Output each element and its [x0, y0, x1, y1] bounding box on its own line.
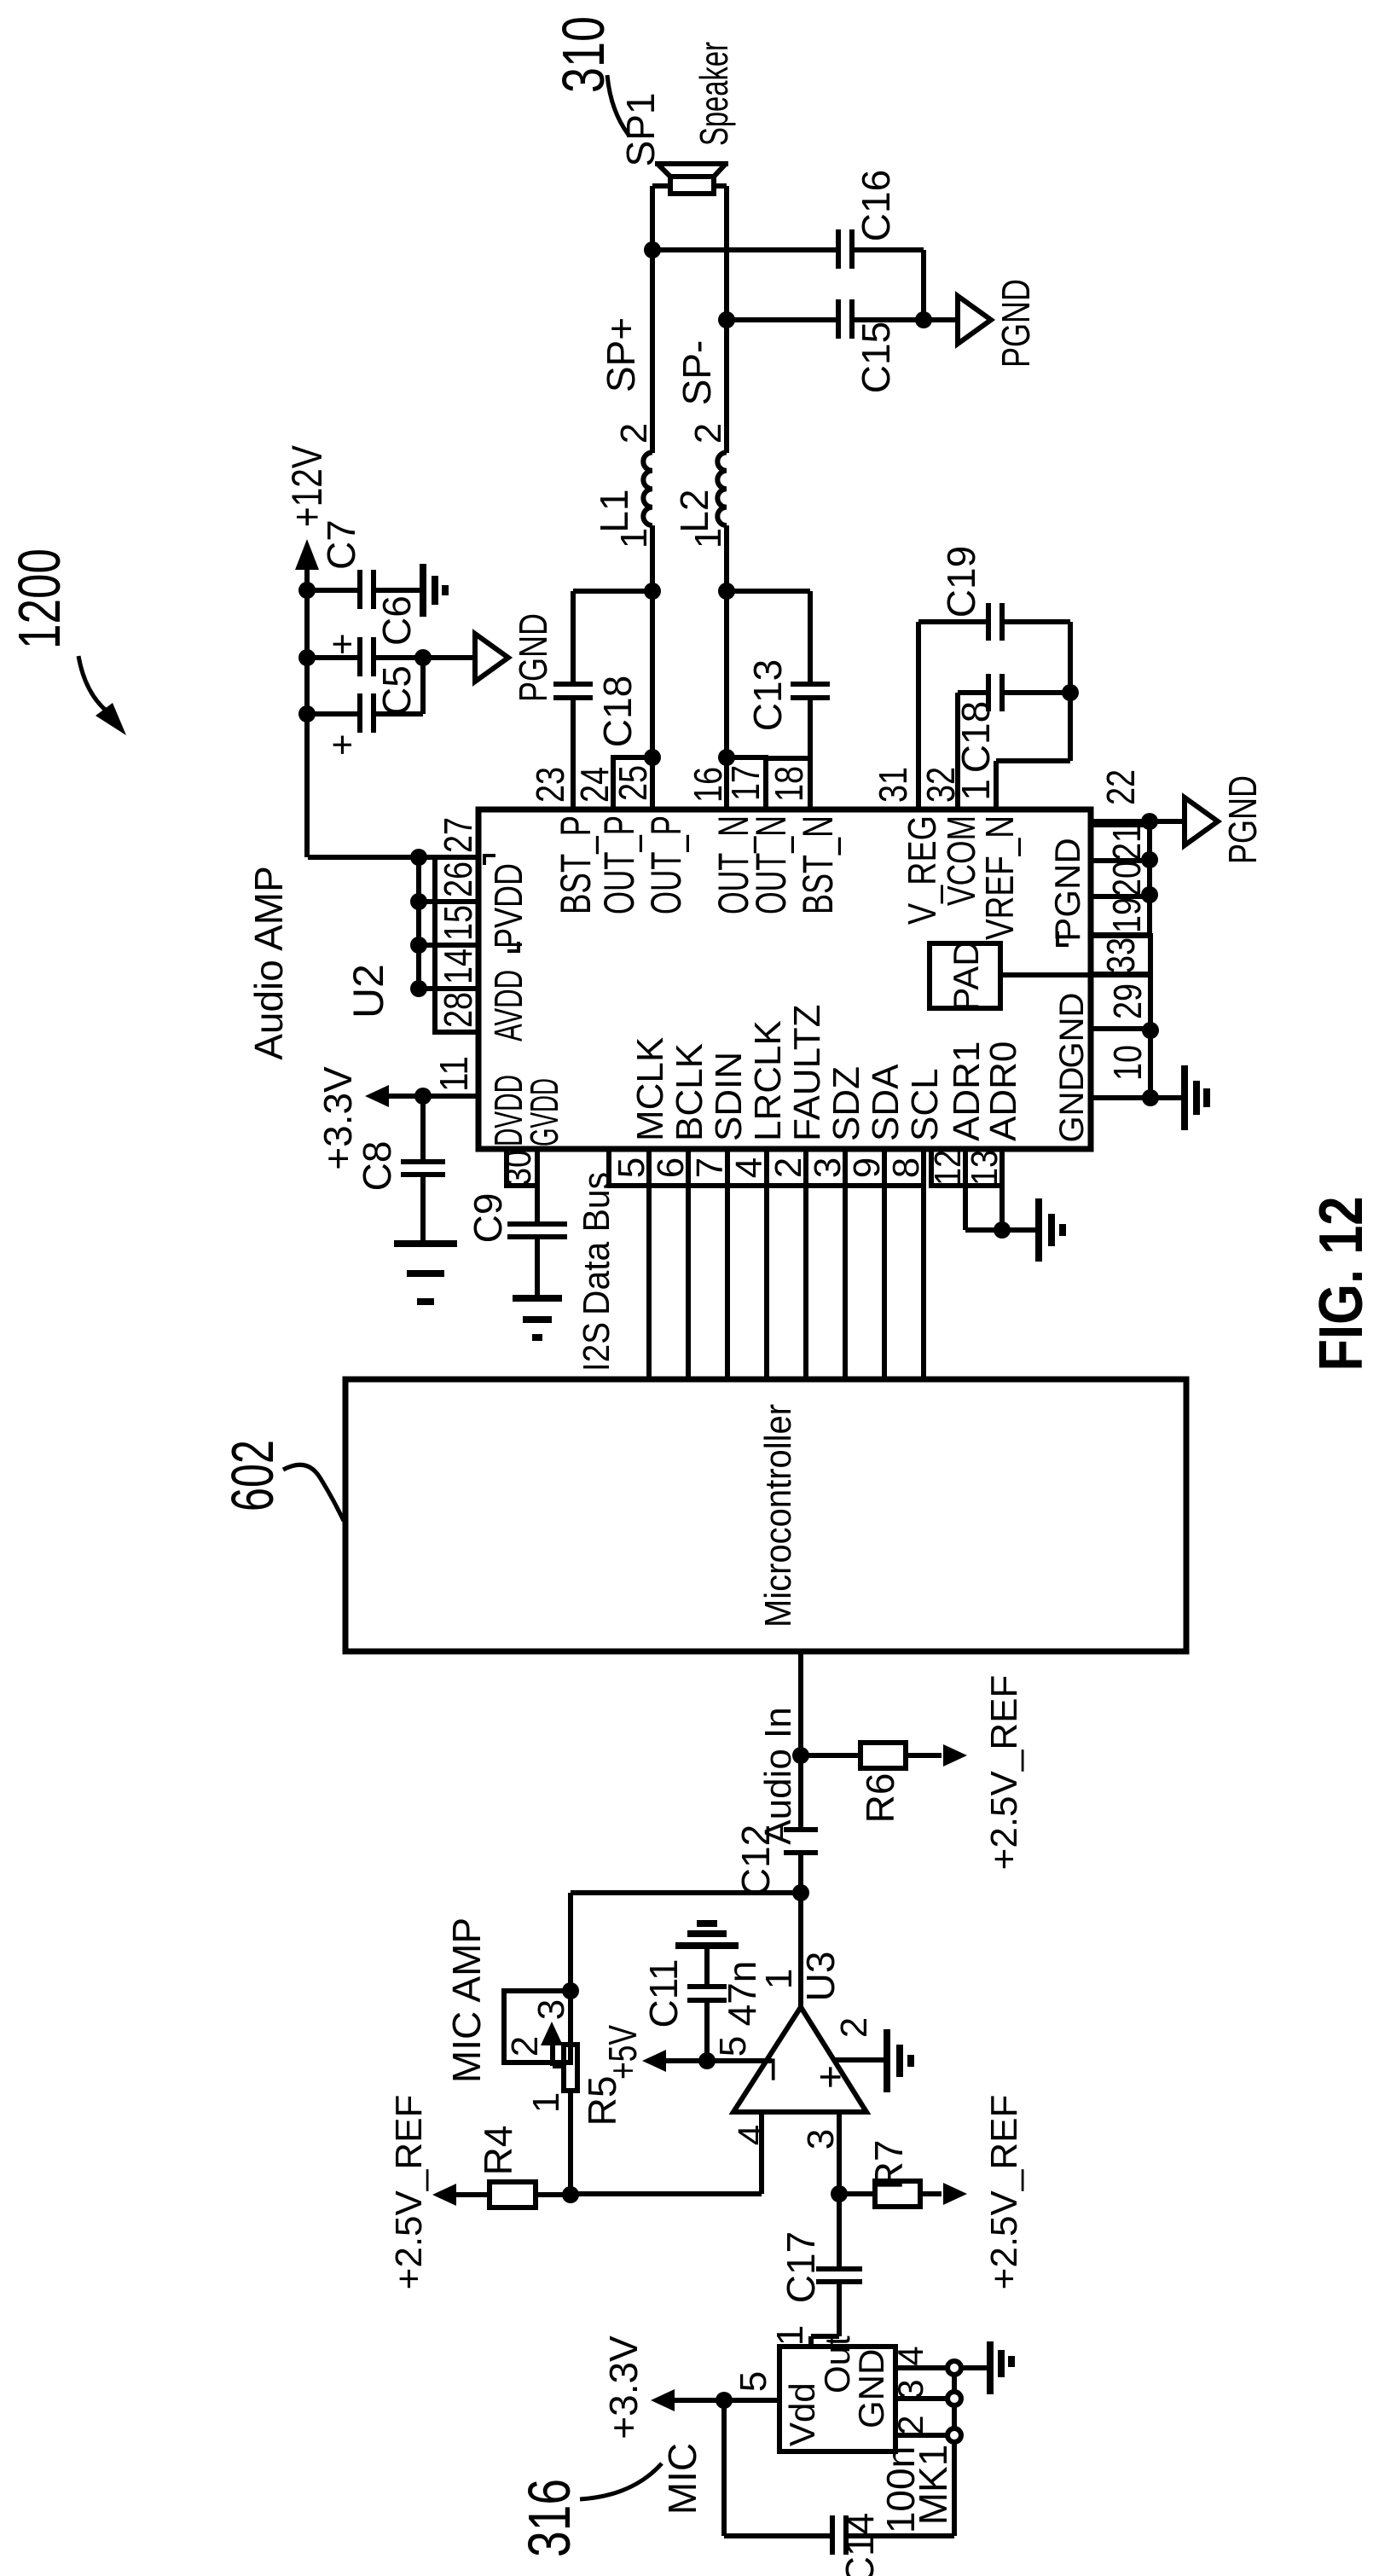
- svg-text:SCL: SCL: [904, 1068, 946, 1141]
- wire: GND pins to ground: [1142, 1022, 1183, 1106]
- wire: I2S bus MCLK: [646, 1186, 652, 1379]
- pin 14 stub (PVDD): [435, 945, 480, 989]
- PGND terminal (U2 bottom): [1150, 775, 1265, 864]
- svg-text:C17: C17: [779, 2231, 823, 2303]
- pin 8 stub (SCL): [884, 1149, 927, 1186]
- inductor L1: [592, 423, 655, 548]
- svg-text:18: 18: [767, 766, 811, 802]
- label PVDD: [484, 856, 530, 951]
- svg-text:C13: C13: [745, 659, 790, 731]
- capacitor C15: [718, 299, 932, 393]
- svg-text:PGND: PGND: [994, 279, 1038, 368]
- figure number 316: [516, 2463, 662, 2557]
- svg-text:+3.3V: +3.3V: [316, 1066, 360, 1170]
- wire: mic pin 4 to ground: [962, 2365, 988, 2370]
- capacitor C7: [307, 519, 423, 609]
- svg-text:U3: U3: [798, 1952, 843, 2002]
- capacitor C11 47n: [641, 1947, 764, 2061]
- svg-text:C8: C8: [355, 1141, 399, 1192]
- inductor L2: [672, 423, 729, 548]
- svg-text:ADR1: ADR1: [946, 1041, 988, 1141]
- pin 9 stub (SDA): [845, 1149, 888, 1186]
- PGND terminal (speaker filter): [924, 279, 1038, 368]
- ground (C9): [513, 1298, 562, 1337]
- svg-text:26: 26: [436, 862, 480, 897]
- svg-text:47n: 47n: [720, 1961, 764, 2027]
- pin 26 stub (PVDD): [435, 857, 480, 902]
- pin 22 (PGND): [1091, 769, 1158, 903]
- svg-text:AVDD: AVDD: [486, 970, 530, 1041]
- pin 13 stub (ADR0): [964, 1149, 1005, 1186]
- wire: FAULTZ: [803, 1186, 808, 1379]
- svg-text:R7: R7: [866, 2140, 911, 2190]
- svg-text:19: 19: [1104, 897, 1149, 933]
- svg-text:1: 1: [525, 2092, 567, 2113]
- pin 28 stub (PVDD): [435, 989, 480, 1032]
- figure number 602: [219, 1440, 344, 1521]
- svg-text:L1: L1: [592, 489, 636, 532]
- svg-text:+3.3V: +3.3V: [601, 2335, 646, 2440]
- capacitor C16: [644, 170, 924, 320]
- pin 2 stub (FAULTZ): [767, 1149, 809, 1186]
- svg-text:BCLK: BCLK: [669, 1043, 710, 1141]
- capacitor C17: [769, 2194, 862, 2347]
- svg-text:OUT_P: OUT_P: [642, 815, 690, 914]
- wire: OUT_P / SP+: [644, 186, 661, 757]
- svg-text:31: 31: [871, 767, 915, 803]
- svg-text:FAULTZ: FAULTZ: [786, 1004, 828, 1141]
- label GND GND: [1053, 993, 1091, 1143]
- wire: I2S bus SDIN: [725, 1186, 730, 1379]
- svg-text:ADR0: ADR0: [982, 1041, 1024, 1141]
- node: rail junction C5: [298, 705, 316, 722]
- svg-text:FIG. 12: FIG. 12: [1307, 1197, 1376, 1372]
- svg-text:LRCLK: LRCLK: [747, 1020, 789, 1141]
- svg-text:2: 2: [833, 2017, 875, 2038]
- wire: SDZ: [843, 1186, 848, 1379]
- svg-text:C14: C14: [837, 2513, 882, 2576]
- pin 16/17 stub (OUT_N): [686, 749, 768, 809]
- pin 1 (VREF_N): [953, 693, 1070, 809]
- svg-text:R4: R4: [476, 2126, 520, 2176]
- ground (ADR pins): [1039, 1198, 1063, 1262]
- figure number 310: [550, 16, 629, 135]
- +2.5V_REF terminal (R4): [388, 2095, 456, 2290]
- capacitor C8: [355, 1096, 445, 1242]
- svg-text:+2.5V_REF: +2.5V_REF: [983, 1675, 1025, 1871]
- svg-text:33: 33: [1098, 937, 1143, 973]
- microphone MK1 box: [779, 2335, 895, 2451]
- svg-text:C6: C6: [374, 595, 419, 646]
- svg-text:R5: R5: [580, 2076, 624, 2126]
- capacitor C9: [466, 1186, 567, 1297]
- resistor R4: [454, 2126, 579, 2208]
- svg-text:BST_P: BST_P: [552, 815, 600, 914]
- node: C5/C6 junction: [414, 649, 432, 666]
- label DVDD AVDD / GVDD: [486, 970, 566, 1146]
- svg-text:14: 14: [436, 949, 480, 984]
- wire: I2C SDA: [882, 1186, 887, 1379]
- resistor R7: [839, 2140, 942, 2207]
- speaker SP1: [618, 42, 736, 194]
- svg-text:MIC AMP: MIC AMP: [444, 1917, 489, 2083]
- svg-text:C16: C16: [854, 170, 898, 241]
- svg-text:MK1: MK1: [911, 2445, 955, 2526]
- svg-text:R6: R6: [858, 1773, 902, 1824]
- wire: feedback from output: [562, 1893, 801, 1999]
- svg-text:C9: C9: [466, 1193, 510, 1244]
- svg-text:PVDD: PVDD: [486, 863, 530, 949]
- mic pin 2 terminal: [890, 2415, 961, 2442]
- wire: OUT_N / SP-: [718, 186, 735, 757]
- pin 6 stub (BCLK): [649, 1149, 692, 1186]
- capacitor C5 (electrolytic, +): [307, 658, 423, 756]
- pin 27 (PVDD): [419, 817, 480, 857]
- svg-text:27: 27: [436, 817, 480, 853]
- svg-text:9: 9: [846, 1157, 888, 1178]
- figure number 1200: [6, 548, 126, 735]
- svg-text:C19: C19: [939, 546, 983, 618]
- svg-text:1: 1: [687, 528, 729, 548]
- svg-text:2: 2: [504, 2036, 546, 2057]
- mic pin 3 terminal: [890, 2379, 961, 2428]
- svg-text:C7: C7: [319, 519, 363, 570]
- label PGND (internal): [1047, 838, 1087, 945]
- svg-text:6: 6: [650, 1157, 692, 1178]
- svg-text:Vdd: Vdd: [782, 2382, 822, 2446]
- PAD box: [930, 940, 1000, 1011]
- svg-text:GND: GND: [1053, 993, 1091, 1069]
- node: rail junction C6: [298, 649, 316, 666]
- svg-text:3: 3: [530, 1999, 572, 2020]
- svg-text:MIC: MIC: [660, 2443, 704, 2515]
- capacitor C14 100n: [724, 2400, 955, 2576]
- pin 20 stub (PGND): [1091, 861, 1150, 896]
- PGND terminal (C5/C6): [423, 613, 555, 702]
- svg-text:Audio AMP: Audio AMP: [246, 866, 291, 1060]
- pin 19 stub (PGND): [1091, 896, 1150, 935]
- svg-text:Data Bus: Data Bus: [576, 1172, 617, 1315]
- svg-text:12: 12: [927, 1150, 969, 1186]
- svg-text:+: +: [322, 734, 363, 756]
- pin 29 stub (GND): [1091, 974, 1150, 1029]
- pin name labels (left edge): [629, 1004, 1024, 1141]
- svg-text:Microcontroller: Microcontroller: [757, 1404, 799, 1627]
- svg-text:25: 25: [611, 765, 655, 801]
- svg-text:GND: GND: [851, 2349, 891, 2428]
- ground (C7): [423, 564, 445, 617]
- svg-text:+: +: [322, 633, 363, 655]
- potentiometer R5 / MIC AMP: [444, 1917, 624, 2195]
- svg-text:11: 11: [432, 1056, 476, 1092]
- capacitor C12: [784, 1830, 818, 1853]
- svg-text:V_REG: V_REG: [900, 815, 944, 925]
- +2.5V_REF terminal (R7): [943, 2095, 1025, 2290]
- net labels SP+ SP-: [599, 317, 719, 405]
- wire: PVDD link bus: [308, 849, 435, 997]
- svg-text:OUT_P: OUT_P: [595, 815, 643, 914]
- svg-text:4: 4: [728, 1157, 770, 1178]
- svg-text:2: 2: [768, 1157, 809, 1178]
- svg-text:C18: C18: [953, 701, 998, 773]
- svg-text:8: 8: [885, 1157, 927, 1178]
- svg-text:MCLK: MCLK: [629, 1037, 671, 1141]
- wire: I2S bus LRCLK: [764, 1186, 769, 1379]
- op-amp? no: IC U2 audio amplifier box: [246, 809, 1091, 1149]
- svg-text:3: 3: [807, 1157, 849, 1178]
- svg-text:+2.5V_REF: +2.5V_REF: [388, 2095, 430, 2290]
- svg-text:7: 7: [689, 1157, 731, 1178]
- svg-text:1: 1: [758, 1969, 800, 1989]
- pin 33 stub (PAD): [1000, 936, 1150, 975]
- op-amp U3: [733, 1952, 866, 2112]
- svg-text:GND: GND: [1053, 1067, 1091, 1143]
- pin 15 stub (PVDD): [435, 902, 480, 945]
- pin 18 stub (BST_N) and capacitor C13: [727, 591, 830, 809]
- svg-text:17: 17: [723, 765, 768, 801]
- pin 3 stub (SDZ): [806, 1149, 849, 1186]
- svg-text:PGND: PGND: [511, 613, 555, 702]
- svg-text:SDIN: SDIN: [708, 1052, 750, 1141]
- pin 7 stub (SDIN): [688, 1149, 731, 1186]
- ground (U2 GND): [1185, 1065, 1207, 1130]
- svg-text:U2: U2: [345, 964, 392, 1018]
- wire: I2S bus BCLK: [686, 1186, 691, 1379]
- svg-text:602: 602: [219, 1440, 286, 1511]
- wire: I2C SCL: [921, 1186, 926, 1379]
- svg-text:L2: L2: [672, 489, 716, 532]
- svg-text:5: 5: [733, 2371, 774, 2392]
- ground (mic): [990, 2341, 1011, 2394]
- pin 12 stub (ADR1): [927, 1149, 969, 1186]
- svg-text:SP+: SP+: [599, 317, 643, 392]
- pin 11 (DVDD) +3.3V: [316, 1056, 478, 1170]
- pin 30 stub (GVDD): [497, 1149, 539, 1186]
- svg-text:2: 2: [613, 423, 655, 444]
- svg-text:2: 2: [687, 423, 729, 444]
- wire: inverting input pin 4: [571, 2112, 773, 2194]
- svg-text:C5: C5: [374, 665, 419, 716]
- svg-text:10: 10: [1105, 1045, 1150, 1081]
- svg-text:+: +: [808, 2065, 854, 2089]
- wire: ADR1/ADR0 to ground: [965, 1186, 1037, 1239]
- svg-text:1: 1: [613, 528, 655, 548]
- svg-text:+2.5V_REF: +2.5V_REF: [983, 2095, 1025, 2290]
- svg-text:GVDD: GVDD: [522, 1078, 566, 1146]
- svg-text:SDZ: SDZ: [826, 1066, 867, 1141]
- svg-text:30: 30: [497, 1150, 539, 1186]
- svg-text:3: 3: [890, 2379, 930, 2399]
- pin 21 stub (PGND): [1091, 825, 1150, 861]
- svg-text:316: 316: [516, 2479, 582, 2557]
- pin 10 stub (GND): [1091, 1029, 1150, 1098]
- svg-text:21: 21: [1104, 825, 1149, 861]
- pin 31 (V_REG) and capacitor C19: [871, 546, 1070, 809]
- svg-text:C11: C11: [641, 1959, 686, 2028]
- svg-text:PAD: PAD: [946, 940, 986, 1011]
- svg-text:Audio In: Audio In: [757, 1707, 799, 1844]
- label I2S Data Bus: [576, 1172, 617, 1372]
- svg-text:1200: 1200: [6, 548, 72, 649]
- mic pin 4 terminal: [890, 2346, 961, 2391]
- capacitor C6 (electrolytic, +): [307, 595, 423, 676]
- wire: Audio In line: [733, 1651, 809, 2007]
- svg-text:PGND: PGND: [1220, 775, 1265, 864]
- pin 5 stub (MCLK): [609, 1149, 652, 1186]
- svg-text:SDA: SDA: [865, 1064, 907, 1141]
- ground (C11): [675, 1923, 739, 1946]
- resistor R6: [801, 1743, 942, 1823]
- svg-text:4: 4: [731, 2125, 773, 2145]
- +12V power rail: [283, 444, 331, 857]
- svg-text:29: 29: [1105, 983, 1150, 1019]
- wire: +5V supply pin 5: [600, 2025, 772, 2080]
- svg-text:PGND: PGND: [1047, 838, 1087, 941]
- svg-text:+12V: +12V: [283, 444, 331, 527]
- svg-text:2: 2: [890, 2415, 930, 2434]
- wire: non-inverting input pin 3: [800, 2112, 848, 2202]
- svg-text:13: 13: [964, 1150, 1005, 1186]
- svg-text:C15: C15: [854, 322, 898, 393]
- svg-text:23: 23: [528, 767, 572, 803]
- svg-text:VREF_N: VREF_N: [977, 815, 1022, 940]
- labels V_REG VCOM VREF_N: [900, 815, 1022, 940]
- svg-text:C18: C18: [595, 676, 640, 747]
- pin 32 (VCOM) and capacitor C18b: [918, 674, 1079, 809]
- ground (op-amp pin 2): [887, 2029, 911, 2092]
- svg-text:15: 15: [436, 905, 480, 941]
- svg-text:1: 1: [769, 2325, 811, 2346]
- pin 5 Vdd wire and +3.3V terminal: [601, 2335, 779, 2440]
- microcontroller box 602: [345, 1379, 1186, 1651]
- svg-text:SP-: SP-: [675, 340, 719, 406]
- svg-text:BST_N: BST_N: [794, 815, 842, 914]
- +2.5V_REF terminal (R6): [943, 1675, 1025, 1871]
- svg-text:4: 4: [890, 2346, 930, 2365]
- pin 23 (BST_P) and capacitor C18: [528, 591, 652, 809]
- svg-text:1: 1: [953, 779, 998, 801]
- svg-text:I2S: I2S: [576, 1322, 617, 1372]
- node: rail junction C7: [298, 582, 316, 599]
- pin 24/25 stub (OUT_P): [572, 749, 661, 809]
- svg-text:5: 5: [712, 2036, 754, 2057]
- svg-text:Speaker: Speaker: [692, 42, 736, 146]
- ground (C8): [394, 1244, 457, 1302]
- labels BST_P OUT_P OUT_P OUT_N OUT_N BST_N: [552, 815, 842, 914]
- wire: pin 2 V- to ground: [833, 2017, 885, 2060]
- svg-text:22: 22: [1098, 769, 1143, 805]
- svg-text:28: 28: [436, 992, 480, 1028]
- svg-text:OUT_N: OUT_N: [747, 815, 795, 914]
- pin 4 stub (LRCLK): [727, 1149, 770, 1186]
- svg-text:+5V: +5V: [600, 2025, 645, 2080]
- svg-text:3: 3: [800, 2129, 842, 2150]
